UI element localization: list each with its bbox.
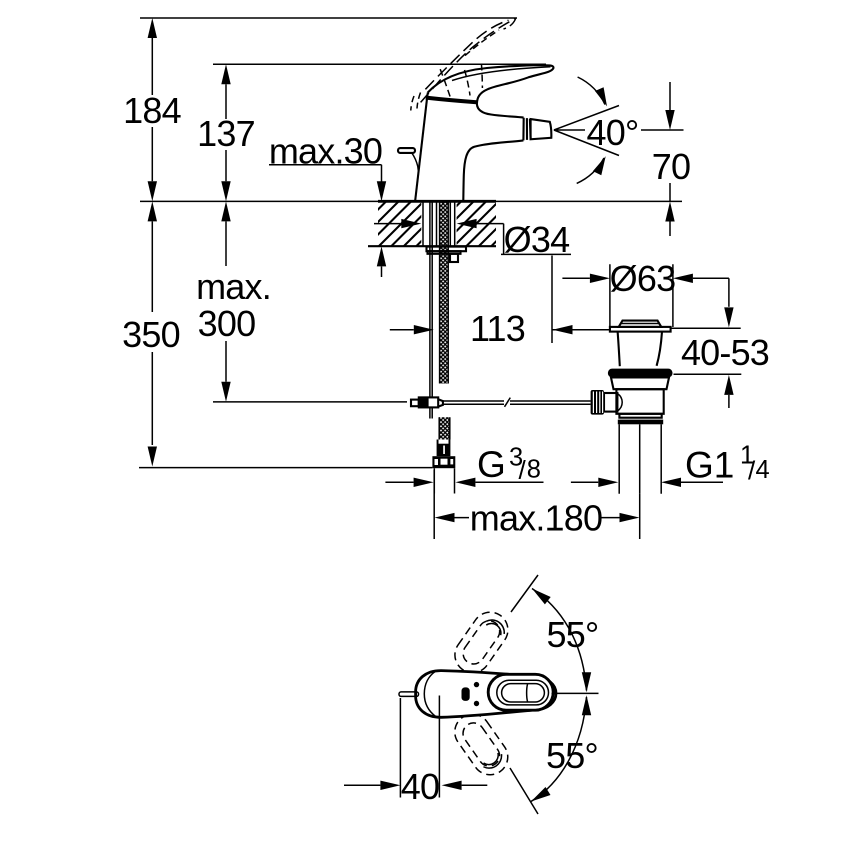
dashed raised handle curve A xyxy=(421,18,516,102)
svg-text:4: 4 xyxy=(756,456,770,484)
lever mid ring xyxy=(497,680,549,705)
dim max300 xyxy=(225,221,227,381)
dim 137 xyxy=(225,84,227,181)
G3/8 nut xyxy=(432,456,455,468)
drain: lift knob xyxy=(619,321,662,327)
lever inner ring xyxy=(502,684,545,702)
svg-text:/: / xyxy=(519,455,527,485)
svg-text:8: 8 xyxy=(527,456,541,484)
dim 70 xyxy=(669,82,671,201)
drain: side port xyxy=(604,393,617,412)
dim 40-53 xyxy=(671,328,741,374)
SECTION: top view xyxy=(344,575,599,814)
dashed handle rotated down xyxy=(448,707,515,781)
lower 55 arc xyxy=(531,697,587,802)
svg-text:Ø63: Ø63 xyxy=(610,258,676,299)
body seam arc xyxy=(424,671,436,717)
drain: tailpipe xyxy=(618,420,663,425)
pop-up rod vertical pair xyxy=(430,203,432,254)
SECTION: side view xyxy=(140,18,684,494)
lever outer ring xyxy=(488,674,553,710)
deck hatch right xyxy=(457,202,496,246)
svg-text:Ø34: Ø34 xyxy=(504,219,570,260)
horizontal pop-up rod to drain xyxy=(443,401,591,404)
drain: valve body xyxy=(611,378,669,390)
supply tube end xyxy=(434,468,454,493)
drain: seal ring xyxy=(608,369,673,378)
SECTION: dims xyxy=(122,18,770,539)
braided hose lower segment xyxy=(439,417,450,439)
faucet body outline xyxy=(415,95,427,200)
body top view xyxy=(416,671,556,718)
aerator ring xyxy=(523,118,530,141)
rod clamp xyxy=(411,400,419,407)
drain: knurled knob xyxy=(591,390,604,415)
upper 55 arc xyxy=(532,589,587,691)
svg-text:G1: G1 xyxy=(685,445,734,486)
dim 113 xyxy=(390,329,414,331)
svg-text:184: 184 xyxy=(123,90,181,131)
55 deg diagonals xyxy=(510,575,538,814)
40deg upper arc arrow xyxy=(578,77,605,105)
svg-text:40: 40 xyxy=(401,766,439,807)
dim O63 xyxy=(610,264,673,327)
pop-up rod below flange xyxy=(430,254,432,397)
dim 350 xyxy=(151,221,153,445)
second tube lines xyxy=(449,203,451,247)
hose end fitting xyxy=(437,440,451,457)
black blob xyxy=(462,687,470,701)
aerator block xyxy=(531,119,552,139)
spray lines from aerator xyxy=(554,106,684,156)
pop-up rod stub xyxy=(399,692,419,697)
deck hatch left xyxy=(378,202,421,246)
svg-text:300: 300 xyxy=(198,303,256,344)
shank walls in deck hole xyxy=(423,203,437,247)
pop-up knob on body xyxy=(398,148,415,153)
deck top line xyxy=(140,200,682,202)
dim max.180 xyxy=(434,470,640,539)
svg-text:max.: max. xyxy=(196,266,271,307)
svg-text:max.180: max.180 xyxy=(470,498,602,539)
dashed raised handle middle segment xyxy=(465,30,499,56)
svg-text:40-53: 40-53 xyxy=(681,332,769,373)
handle lever outline xyxy=(428,65,554,117)
dim 184 xyxy=(151,38,153,181)
40deg lower arc arrow xyxy=(577,158,604,183)
svg-text:55°: 55° xyxy=(546,614,598,655)
svg-text:G: G xyxy=(477,444,506,485)
svg-text:70: 70 xyxy=(652,146,690,187)
dim 40 bottom xyxy=(400,696,439,798)
top reference line 184 xyxy=(140,17,517,19)
svg-text:113: 113 xyxy=(470,308,525,349)
reference line 137 xyxy=(213,63,546,65)
svg-text:137: 137 xyxy=(197,113,255,154)
dashed raised handle curve B xyxy=(425,20,508,89)
svg-text:350: 350 xyxy=(122,314,180,355)
dashes crossing handle xyxy=(440,69,451,99)
dashed raised handle tip hook xyxy=(504,19,516,29)
braided hose upper xyxy=(440,203,449,384)
handle joint thick line xyxy=(426,98,477,103)
svg-text:55°: 55° xyxy=(546,735,598,776)
horizontal ref line xyxy=(552,692,599,694)
dim O34 xyxy=(374,223,401,225)
drain: flange plate xyxy=(610,327,671,332)
dashed handle rotated up xyxy=(448,605,515,679)
drain: trumpet neck xyxy=(618,332,620,367)
handle top band line xyxy=(452,67,551,81)
svg-text:40°: 40° xyxy=(586,112,638,153)
lever divider xyxy=(526,684,529,702)
flange below deck xyxy=(427,247,467,252)
spout underside / body right edge xyxy=(463,140,523,200)
deck bottom line xyxy=(368,245,496,247)
screw dots xyxy=(474,682,479,687)
